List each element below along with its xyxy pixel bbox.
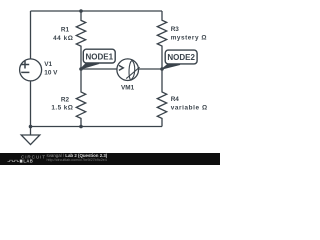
footer bar	[0, 153, 220, 165]
resistor R3	[157, 11, 166, 69]
label R1 value	[53, 26, 73, 42]
node NODE1 flag	[81, 49, 116, 69]
footer title text	[47, 153, 108, 162]
wire left rail bottom (V1 bottom lead)	[30, 81, 32, 127]
svg-text:V1: V1	[44, 61, 52, 68]
junction node B (NODE2 point)	[160, 67, 164, 71]
wire bottom rail	[31, 126, 163, 128]
svg-text:VM1: VM1	[121, 85, 135, 92]
label R4 value	[171, 96, 208, 112]
node NODE2 flag	[162, 50, 197, 69]
wire left rail top (V1 top lead)	[30, 11, 32, 59]
resistor R2	[76, 69, 85, 127]
junction bottom (R2/bottom rail)	[79, 125, 83, 129]
svg-text:1.5 kΩ: 1.5 kΩ	[51, 104, 73, 111]
junction ground tap	[29, 125, 33, 129]
footer CircuitLab logo	[8, 155, 46, 164]
svg-text:44 kΩ: 44 kΩ	[53, 35, 73, 42]
label VM1	[121, 85, 135, 92]
wire top rail	[31, 10, 163, 12]
resistor R1	[76, 11, 85, 69]
svg-text:10 V: 10 V	[44, 69, 58, 76]
junction top (R1/top rail)	[79, 9, 83, 13]
svg-text:NODE2: NODE2	[167, 53, 195, 62]
voltmeter VM1	[117, 59, 140, 81]
svg-text:NODE1: NODE1	[86, 52, 114, 61]
wire middle horizontal right (voltmeter to NODE2)	[139, 68, 163, 70]
svg-text:R4: R4	[171, 96, 180, 103]
resistor R4	[157, 69, 166, 127]
wire middle horizontal left (NODE1 to voltmeter)	[81, 68, 117, 70]
svg-text:R2: R2	[61, 97, 70, 104]
voltage source V1	[20, 59, 42, 81]
ground	[21, 127, 40, 145]
junction node A (NODE1 point)	[79, 67, 83, 71]
svg-text:mystery Ω: mystery Ω	[171, 35, 207, 42]
svg-text:R3: R3	[171, 26, 180, 33]
label V1 value	[44, 61, 58, 76]
voltmeter VM1 greater-than glyph	[119, 65, 123, 70]
svg-text:http://circuitlab.com/c/7br5f2: http://circuitlab.com/c/7br5f27b9c2e4	[47, 158, 107, 162]
svg-text:variable Ω: variable Ω	[171, 105, 208, 112]
label R3 value	[171, 26, 207, 42]
svg-text:R1: R1	[61, 26, 70, 33]
label R2 value	[51, 97, 73, 112]
svg-text:LAB: LAB	[23, 159, 33, 164]
